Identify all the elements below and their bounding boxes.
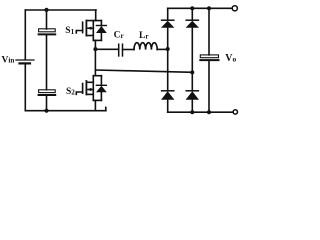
svg-text:Vo: Vo — [225, 53, 236, 64]
svg-text:S2: S2 — [66, 87, 75, 97]
svg-text:Lr: Lr — [139, 31, 149, 41]
svg-text:S1: S1 — [65, 26, 74, 36]
svg-text:Vin: Vin — [2, 55, 15, 65]
svg-text:Cr: Cr — [114, 31, 125, 41]
